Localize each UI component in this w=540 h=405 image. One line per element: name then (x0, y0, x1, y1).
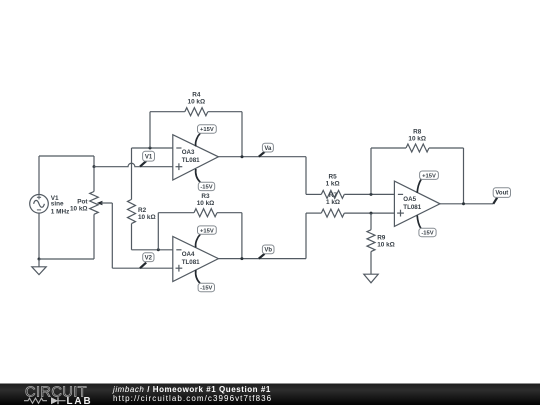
op-amp OA3 TL081 (173, 135, 219, 180)
node junction R4 left (149, 147, 152, 150)
svg-text:R9: R9 (377, 235, 386, 242)
svg-text:TL081: TL081 (182, 259, 200, 266)
wire Va down (305, 157, 307, 195)
svg-text:10 kΩ: 10 kΩ (138, 214, 156, 221)
node junction R3 left (157, 248, 160, 251)
power flag -15V OA5 (417, 215, 436, 236)
wire wiper down (111, 203, 113, 268)
ground (32, 259, 46, 275)
svg-text:10 kΩ: 10 kΩ (408, 135, 426, 142)
power flag +15V OA3 (196, 125, 217, 147)
svg-text:Pot: Pot (77, 199, 88, 206)
svg-text:http://circuitlab.com/c3996vt7: http://circuitlab.com/c3996vt7tf836 (113, 394, 272, 403)
svg-text:Vb: Vb (264, 248, 272, 254)
wire pot top to OA3 plus input with hop (94, 163, 173, 166)
svg-text:10 kΩ: 10 kΩ (70, 206, 88, 213)
wire top horizontal (39, 155, 94, 157)
power flag +15V OA4 (196, 226, 217, 248)
svg-text:R3: R3 (201, 193, 210, 200)
node junction R8 left (370, 193, 373, 196)
op-amp OA5 TL081 (394, 181, 440, 226)
svg-text:10 kΩ: 10 kΩ (377, 242, 395, 249)
resistor R9 10 k (367, 213, 395, 274)
svg-text:-15V: -15V (421, 231, 433, 237)
resistor R8 10 k feedback (371, 128, 464, 204)
resistor R5 1 k (306, 173, 394, 198)
resistor R7 1 k (306, 192, 394, 217)
wire R2 bottom to OA4 minus input (132, 249, 173, 251)
svg-text:10 kΩ: 10 kΩ (188, 99, 206, 106)
wire OA3 output (218, 156, 306, 158)
svg-text:R7: R7 (329, 192, 338, 199)
node junction R4 right (241, 155, 244, 158)
potentiometer Pot (70, 167, 112, 259)
power flag -15V OA4 (196, 270, 215, 292)
svg-text:R2: R2 (138, 207, 147, 214)
wire R2 top to OA3 minus input (132, 147, 173, 149)
node label Va (259, 143, 274, 157)
svg-text:+15V: +15V (200, 127, 214, 133)
svg-text:1 kΩ: 1 kΩ (326, 199, 340, 206)
wire OA4 output (218, 258, 306, 260)
svg-text:jimbach / Homeowork #1 Questio: jimbach / Homeowork #1 Question #1 (112, 385, 271, 394)
node junction ground (38, 258, 41, 261)
svg-text:OA4: OA4 (182, 251, 195, 258)
svg-text:+15V: +15V (200, 228, 214, 234)
svg-text:R5: R5 (329, 173, 338, 180)
voltage source V1 (30, 195, 70, 216)
wire OA5 output (440, 203, 493, 205)
node label V2 (140, 253, 154, 268)
wire Vb up (305, 213, 307, 259)
svg-text:Vout: Vout (495, 191, 508, 197)
svg-text:R8: R8 (413, 128, 422, 135)
resistor R4 10 k feedback (150, 92, 242, 157)
node junction R8 right (462, 202, 465, 205)
svg-text:OA5: OA5 (403, 196, 416, 203)
CircuitLab logo diode symbol (51, 397, 58, 404)
power flag -15V OA3 (196, 169, 215, 191)
node label Vout (493, 188, 510, 204)
CircuitLab logo resistor symbol (24, 398, 47, 403)
resistor R3 10 k feedback (158, 193, 242, 259)
wire wiper to OA4 plus input (112, 267, 173, 269)
node label V1 (140, 151, 155, 166)
svg-text:OA3: OA3 (182, 149, 195, 156)
node junction R3 right (240, 257, 243, 260)
wire V1 top lead (38, 156, 40, 195)
svg-text:Va: Va (264, 146, 272, 152)
node junction R9 top (370, 212, 373, 215)
footer bar (0, 384, 540, 405)
wire pot top connection (93, 156, 95, 167)
resistor R2 10 k (128, 148, 156, 250)
svg-text:+15V: +15V (422, 173, 436, 179)
wire bottom horizontal (39, 258, 94, 260)
svg-text:-15V: -15V (200, 185, 212, 191)
svg-text:10 kΩ: 10 kΩ (197, 200, 215, 207)
svg-text:1 MHz: 1 MHz (51, 208, 69, 215)
svg-text:TL081: TL081 (403, 204, 421, 211)
svg-text:V2: V2 (145, 255, 153, 261)
power flag +15V OA5 (417, 171, 438, 193)
node label Vb (259, 245, 274, 259)
node junction pot top (93, 165, 96, 168)
ground R9 (364, 274, 378, 283)
wire V1 bottom lead (38, 213, 40, 259)
svg-text:1 kΩ: 1 kΩ (326, 181, 340, 188)
svg-text:V1: V1 (145, 154, 153, 160)
svg-text:R4: R4 (192, 92, 201, 99)
svg-text:-15V: -15V (200, 286, 212, 292)
op-amp OA4 TL081 (173, 237, 219, 282)
svg-text:sine: sine (51, 201, 64, 208)
svg-text:TL081: TL081 (182, 157, 200, 164)
svg-text:LAB: LAB (67, 396, 93, 405)
